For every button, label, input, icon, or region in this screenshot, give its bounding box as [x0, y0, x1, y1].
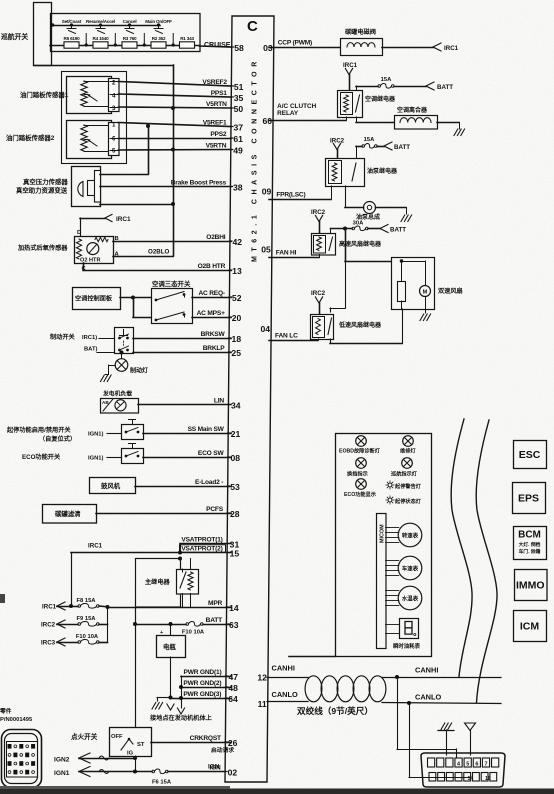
wire PPS2 pin6 to ECU 61 [119, 138, 232, 140]
DLC ground 1 (signal ground) [438, 723, 454, 755]
wire V5RTN pin3 to ECU 50 [119, 107, 232, 108]
svg-text:IGN1): IGN1) [88, 432, 104, 438]
generator load (发电机负载) [101, 390, 139, 414]
wire O2BLO to sensor return bus [113, 256, 173, 258]
svg-text:维修灯: 维修灯 [400, 447, 416, 455]
cruise switch connector box [34, 3, 52, 66]
svg-text:IRC2: IRC2 [330, 138, 345, 145]
svg-text:2: 2 [112, 80, 116, 87]
ECU pin 60 (right) [262, 116, 272, 126]
svg-text:7: 7 [485, 761, 488, 767]
svg-text:13: 13 [232, 266, 242, 276]
node PWR GND(3) / ECU pin 64 (left) [183, 691, 238, 704]
node ECO SW / ECU pin 08 (left) [198, 450, 240, 463]
wire CANHI continuation [382, 677, 501, 679]
wire pin60 to A/C relay coil [269, 120, 346, 122]
svg-text:FPR(LSC): FPR(LSC) [276, 192, 305, 199]
accelerator pedal sensor 1 (油门踏板传感器1) [20, 77, 119, 114]
wire A/C panel to switches [120, 297, 151, 299]
svg-text:IRC3: IRC3 [41, 640, 56, 647]
cruise switch Main On/OFF [145, 19, 172, 34]
DLC diagnostic connector [421, 753, 505, 787]
wire PWR GND(1) to ECU 47 [181, 676, 231, 678]
junction on cruise ladder [143, 43, 146, 46]
svg-text:11: 11 [258, 699, 267, 709]
svg-text:空调继电器: 空调继电器 [365, 95, 396, 103]
wire FAN LC pin04 to relay coil [269, 340, 318, 342]
svg-text:52: 52 [232, 293, 242, 303]
svg-text:IRC1: IRC1 [444, 45, 459, 52]
svg-text:Brake Boost Press: Brake Boost Press [171, 179, 227, 186]
svg-text:R1 343: R1 343 [180, 36, 194, 41]
svg-text:R2 362: R2 362 [152, 36, 166, 41]
svg-text:IGN2: IGN2 [54, 757, 70, 764]
connector C (MT62.1 chassis connector) body [225, 16, 274, 782]
svg-text:车门. 除霜: 车门. 除霜 [519, 548, 541, 555]
node PPS1 / ECU pin 35 (left) [211, 90, 244, 103]
svg-text:BATT: BATT [437, 84, 453, 91]
pedal sensors enclosure [62, 72, 127, 164]
scan page bottom edge [0, 789, 554, 794]
dual speed fan (双速风扇) [392, 258, 463, 321]
svg-text:34: 34 [231, 401, 241, 411]
wire CANLO continuation [382, 703, 501, 704]
svg-text:碳罐滤清: 碳罐滤清 [55, 509, 81, 518]
gauge 转速表 [386, 523, 422, 547]
svg-text:FAN HI: FAN HI [276, 250, 297, 257]
node V5RTN / ECU pin 50 (left) [206, 101, 243, 114]
svg-text:20: 20 [232, 313, 242, 323]
brake switch (制动开关) [50, 328, 134, 354]
svg-text:IRC1: IRC1 [116, 216, 131, 223]
svg-text:OFF: OFF [111, 734, 123, 740]
svg-text:BCM: BCM [518, 530, 541, 541]
svg-text:61: 61 [233, 134, 243, 144]
cruise switch assembly outer box [51, 14, 201, 52]
svg-text:Cancel: Cancel [123, 19, 137, 24]
svg-text:08: 08 [230, 453, 240, 463]
resistor R2 (362 ohm) [151, 36, 166, 48]
wire CRUISE to pin 58 [200, 46, 232, 47]
harness curve 1 [451, 419, 472, 677]
svg-text:D: D [77, 230, 81, 236]
svg-text:BRKSW: BRKSW [201, 331, 226, 338]
svg-text:15A: 15A [381, 77, 392, 83]
fuel pump relay (油泵继电器) [326, 159, 399, 187]
brake lamp (制动灯) [101, 351, 149, 382]
wire vacuum sensor supply to V5REF1 [100, 174, 148, 176]
svg-text:接地点在发动机机体上: 接地点在发动机机体上 [150, 714, 213, 722]
svg-text:BATT: BATT [206, 617, 222, 624]
svg-text:ICM: ICM [520, 621, 540, 633]
svg-text:35: 35 [234, 93, 244, 103]
svg-text:VSATPROT(1): VSATPROT(1) [181, 536, 222, 543]
wire battery feed bus [135, 607, 137, 624]
svg-text:PCFS: PCFS [206, 506, 224, 513]
svg-text:O2BHI: O2BHI [206, 234, 226, 241]
cruise switch top bus wire [52, 25, 160, 27]
svg-text:ESC: ESC [519, 449, 541, 461]
svg-text:MT62.1 CHASIS CONNECTOR: MT62.1 CHASIS CONNECTOR [252, 57, 259, 262]
svg-text:4: 4 [112, 93, 116, 100]
fuel pump assembly (油泵总成) [345, 186, 412, 222]
junction on cruise ladder [172, 43, 175, 46]
A/C relay (空调继电器) [338, 91, 397, 118]
wire ECO SW to ECU 08 [143, 457, 231, 459]
node CRKRQST / ECU pin 26 (left) [190, 735, 238, 748]
svg-text:车速表: 车速表 [402, 564, 419, 572]
svg-text:EPS: EPS [518, 493, 539, 505]
svg-text:加热式后氧传感器: 加热式后氧传感器 [17, 244, 68, 252]
svg-text:IMMO: IMMO [516, 580, 545, 592]
wire IGN1 + fuse F6 15A to ECU 02 [54, 764, 225, 786]
resistor R5 (6190 ohm) [64, 36, 81, 48]
svg-text:PWR GND(3): PWR GND(3) [183, 691, 221, 698]
ECO function switch (ECO功能开关) [22, 444, 144, 464]
cluster bottom edge extension [289, 656, 335, 658]
svg-text:25: 25 [231, 348, 241, 358]
node PCFS / ECU pin 28 (left) [206, 506, 240, 519]
node MPR / ECU pin 14 (left) [208, 600, 239, 613]
wire LIN to ECU 34 [138, 404, 231, 406]
svg-text:5: 5 [466, 761, 469, 767]
start/stop enable switch (起停功能启用/禁用开关) [6, 420, 144, 444]
svg-text:IG: IG [127, 751, 134, 757]
svg-text:ECO功能显示: ECO功能显示 [344, 490, 376, 498]
main relay (主继电器) [136, 559, 199, 608]
wire BATT row to ECU 63 + fuse F10 10A [135, 624, 186, 626]
wire vacuum sensor return [100, 204, 173, 206]
svg-text:VSATPROT(2): VSATPROT(2) [181, 545, 222, 552]
harness connector face view + part number [0, 707, 42, 788]
wire fan power feed [345, 229, 347, 262]
svg-text:CCP (PWM): CCP (PWM) [278, 40, 312, 47]
junction on cruise ladder [85, 43, 88, 46]
svg-text:空调三态开关: 空调三态开关 [152, 279, 191, 288]
svg-text:SS Main SW: SS Main SW [188, 426, 225, 433]
svg-text:起停状态灯: 起停状态灯 [394, 497, 422, 505]
node V5REF1 / ECU pin 37 (left) [203, 119, 244, 132]
svg-text:油泵继电器: 油泵继电器 [367, 167, 398, 175]
resistor R3 (760 ohm) [122, 36, 137, 48]
wire O2BHI to ECU 42 [113, 241, 231, 243]
ground cascade [150, 676, 213, 722]
node PWR GND(1) / ECU pin 47 (left) [184, 669, 239, 682]
svg-text:12: 12 [257, 673, 267, 683]
svg-text:油门踏板传感器2: 油门踏板传感器2 [6, 133, 55, 142]
svg-text:CANLO: CANLO [415, 693, 442, 702]
svg-text:IGN: IGN [208, 764, 220, 771]
IRC2 down feed (low fan) [311, 290, 326, 314]
svg-text:低速风扇继电器: 低速风扇继电器 [338, 321, 382, 329]
svg-text:IRC2: IRC2 [41, 622, 56, 629]
wire CANLO drop to DLC [409, 703, 411, 778]
cluster warning lamp 换挡指示 [347, 458, 368, 478]
svg-text:空调控制面板: 空调控制面板 [75, 295, 113, 303]
cruise switch Resume/Accel [86, 19, 115, 34]
wire BRKLP to ECU 25 [133, 352, 231, 354]
wire MPR row to ECU 14 [108, 607, 232, 609]
accelerator pedal sensor 2 (油门踏板传感器2) [6, 121, 119, 159]
svg-text:R5 6190: R5 6190 [64, 36, 81, 41]
harness curve 2 [476, 420, 497, 703]
svg-text:MICOM: MICOM [380, 524, 386, 543]
svg-text:起停功能启用/禁用开关: 起停功能启用/禁用开关 [6, 426, 71, 434]
instantaneous fuel consumption display 瞬时油耗表 [386, 619, 421, 651]
svg-text:4: 4 [457, 761, 460, 767]
svg-text:大灯. 倒档: 大灯. 倒档 [519, 541, 541, 548]
IRC2 down feed (fuel pump) [330, 138, 345, 159]
cruise switch Set/Coast [62, 19, 82, 34]
svg-text:F10 10A: F10 10A [182, 630, 205, 636]
scan left edge smudge [0, 594, 5, 603]
IRC1 feed arrow (O2 heater) [77, 214, 131, 236]
wire CCP (PWM) to canister solenoid [269, 47, 340, 49]
svg-text:O2B HTR: O2B HTR [198, 263, 226, 270]
svg-text:IRC1: IRC1 [88, 543, 103, 550]
fuse 15A to BATT (fuel pump) [356, 137, 410, 158]
wire VSATPROT(1) row to ECU 31 [180, 543, 231, 545]
svg-text:BATT: BATT [394, 144, 410, 151]
A/C control panel (空调控制面板) [73, 288, 121, 310]
node LIN / ECU pin 34 (left) [214, 397, 241, 410]
node VSATPROT(1) / ECU pin 31 (left) [181, 536, 239, 549]
fuse F9 15A / IRC2 [41, 607, 108, 629]
svg-text:真空压力传感器: 真空压力传感器 [23, 177, 68, 186]
svg-text:起停警告灯: 起停警告灯 [394, 482, 422, 490]
instrument cluster box [336, 434, 432, 657]
MICOM bar [377, 514, 387, 649]
wire PWR GND(2) to ECU 48 [181, 687, 231, 689]
svg-text:MPR: MPR [208, 600, 222, 607]
svg-text:CRUISE: CRUISE [204, 42, 231, 49]
node O2B HTR / ECU pin 13 (left) [198, 263, 242, 276]
node O2BHI / ECU pin 42 (left) [206, 234, 242, 247]
ECU pin 09 (right) [262, 187, 306, 199]
svg-text:04: 04 [260, 324, 270, 334]
wire Brake Boost Press to ECU 38 [100, 186, 231, 188]
svg-text:Set/Coast: Set/Coast [62, 19, 82, 24]
vacuum pressure sensor (真空压力传感器) [16, 167, 101, 207]
svg-text:37: 37 [233, 123, 243, 133]
node Brake Boost Press / ECU pin 38 (left) [171, 179, 243, 192]
svg-text:空调离合器: 空调离合器 [397, 106, 428, 114]
module EPS [513, 483, 546, 514]
svg-text:V5RTN: V5RTN [206, 142, 227, 149]
svg-text:LIN: LIN [214, 397, 224, 404]
svg-text:碳罐电磁阀: 碳罐电磁阀 [345, 28, 376, 36]
svg-text:51: 51 [234, 82, 244, 92]
svg-text:49: 49 [233, 146, 243, 156]
svg-text:IRC2: IRC2 [311, 209, 326, 216]
node CRUISE / ECU pin 58 (left) [231, 43, 244, 53]
svg-text:IRC2: IRC2 [311, 290, 326, 297]
high speed fan relay (高速风扇继电器) [312, 234, 383, 256]
svg-text:BATT: BATT [390, 227, 406, 234]
twisted pair CANLO conductor [267, 701, 308, 703]
wire PWR GND(3) to ECU 64 [171, 698, 232, 700]
svg-text:O2BLO: O2BLO [148, 249, 170, 256]
svg-text:零件: 零件 [0, 707, 12, 715]
svg-text:水温表: 水温表 [402, 594, 419, 602]
svg-text:05: 05 [261, 245, 271, 255]
svg-text:6: 6 [475, 761, 478, 767]
svg-text:58: 58 [234, 43, 244, 53]
node SS Main SW / ECU pin 21 (left) [188, 426, 241, 439]
wire IGN2 [54, 753, 137, 772]
svg-text:CANLO: CANLO [272, 690, 299, 699]
svg-text:CRKRQST: CRKRQST [190, 735, 221, 742]
node BRKLP / ECU pin 25 (left) [203, 345, 241, 358]
module ESC [514, 441, 547, 469]
svg-text:IRC1: IRC1 [42, 604, 57, 611]
cluster warning lamp ECO功能显示 [344, 479, 376, 498]
ECU pin 05 (right) [261, 245, 296, 257]
svg-text:ECO功能开关: ECO功能开关 [22, 453, 61, 461]
wire CRKRQST to ECU 26 + label 启动请求 [151, 742, 231, 744]
svg-text:主继电器: 主继电器 [145, 578, 171, 586]
wire O2B HTR to ECU 13 [83, 263, 85, 270]
svg-text:IGN1: IGN1 [54, 770, 70, 777]
start-stop status lamp 起停状态灯 [386, 496, 422, 505]
node IGN / ECU pin 02 (left) [209, 764, 237, 777]
svg-text:巡航指示灯: 巡航指示灯 [391, 470, 418, 478]
gauge 车速表 [386, 556, 422, 580]
svg-text:R3 760: R3 760 [123, 36, 137, 41]
wire FPR(LSC) pin09 to relay coil [269, 199, 331, 201]
ECU pin 04 (right) [260, 324, 298, 340]
cluster warning lamp 巡航指示灯 [391, 458, 418, 478]
junction on cruise ladder [114, 43, 117, 46]
svg-text:F6 15A: F6 15A [152, 780, 172, 786]
IRC1 down feed [343, 62, 358, 90]
svg-text:EOBD故障诊断灯: EOBD故障诊断灯 [339, 447, 381, 455]
svg-text:30A: 30A [353, 221, 364, 227]
node BATT / ECU pin 63 (left) [206, 617, 239, 630]
svg-text:F8 15A: F8 15A [76, 598, 96, 604]
svg-text:真空助力资源变送: 真空助力资源变送 [16, 186, 68, 195]
wire PCFS to ECU 28 [96, 513, 231, 515]
svg-text:巡航开关: 巡航开关 [1, 32, 28, 41]
battery (电瓶) [157, 624, 186, 698]
svg-text:（自复位式）: （自复位式） [39, 435, 76, 443]
svg-text:BRKLP: BRKLP [203, 345, 226, 352]
wire BRKSW to ECU 18 [133, 338, 231, 340]
svg-text:双绞线（9节/英尺）: 双绞线（9节/英尺） [297, 705, 373, 716]
svg-text:发电机负载: 发电机负载 [102, 390, 132, 398]
module ICM [514, 611, 547, 642]
svg-text:C: C [247, 18, 258, 35]
wire SS Main SW to ECU 21 [143, 433, 231, 435]
svg-text:42: 42 [232, 237, 242, 247]
svg-text:02: 02 [228, 768, 238, 778]
wire E-Load2- to ECU 53 [135, 486, 231, 488]
wire sensor return bus [173, 65, 175, 256]
svg-text:A/C CLUTCH: A/C CLUTCH [277, 103, 316, 110]
A/C clutch (空调离合器) [356, 106, 465, 136]
node VSREF2 / ECU pin 51 (left) [202, 79, 243, 92]
svg-text:转速表: 转速表 [402, 531, 419, 539]
wire PPS1 pin4 to ECU 35 [119, 94, 232, 97]
cruise switch Cancel [123, 19, 137, 34]
svg-text:AC REQ-: AC REQ- [198, 290, 224, 297]
fuse 15A to BATT (A/C) [356, 77, 453, 91]
wire VSATPROT(2) row to ECU 15 [180, 552, 231, 554]
svg-text:点火开关: 点火开关 [71, 732, 98, 741]
svg-text:P/N0001495: P/N0001495 [0, 717, 33, 723]
svg-text:瞬时油耗表: 瞬时油耗表 [393, 642, 421, 650]
node BRKSW / ECU pin 18 (left) [201, 331, 242, 344]
node PWR GND(2) / ECU pin 48 (left) [183, 680, 238, 693]
svg-text:50: 50 [234, 104, 244, 114]
svg-text:换挡指示: 换挡指示 [347, 470, 368, 478]
cruise resistor ladder output wire [50, 45, 200, 47]
IRC2 down feed (high fan) [311, 209, 326, 233]
svg-text:F10 10A: F10 10A [76, 634, 99, 640]
svg-text:CANHI: CANHI [415, 666, 438, 675]
svg-text:启动请求: 启动请求 [211, 746, 234, 754]
gauge 水温表 [386, 586, 422, 610]
resistor R4 (1540 ohm) [93, 36, 110, 48]
svg-text:38: 38 [233, 183, 243, 193]
fuse F10 10A / IRC3 [41, 624, 108, 647]
ECU pin 12 (right) [257, 673, 267, 683]
svg-text:09: 09 [262, 187, 272, 197]
svg-text:IRC1): IRC1) [82, 335, 97, 341]
svg-text:3: 3 [112, 105, 116, 112]
svg-text:IGN1): IGN1) [88, 456, 104, 462]
label box VSATPROT(2) [180, 545, 226, 552]
wire AC REQ- to ECU 52 [192, 297, 231, 299]
svg-text:15: 15 [230, 549, 240, 559]
svg-text:16: 16 [485, 776, 491, 782]
canister box (碳罐滤清) [43, 505, 97, 524]
node AC REQ- / ECU pin 52 (left) [198, 290, 241, 303]
wire VSREF2 pin2 to ECU 51 [119, 82, 232, 87]
svg-text:RELAY: RELAY [277, 110, 299, 117]
node V5RTN / ECU pin 49 (left) [206, 142, 243, 155]
wire to IRC1 arrow [382, 47, 433, 49]
svg-text:PWR GND(1): PWR GND(1) [184, 669, 222, 676]
heated rear O2 sensor (加热式后氧传感器) [17, 236, 120, 272]
svg-text:ST: ST [137, 742, 145, 748]
ignition switch (点火开关) [71, 728, 152, 757]
node VSATPROT(2) / ECU pin 15 (left) [181, 545, 239, 558]
svg-text:M: M [423, 290, 428, 296]
twisted pair CANHI conductor [267, 677, 308, 679]
module IMMO [515, 570, 548, 601]
node E-Load2 - / ECU pin 53 (left) [195, 479, 240, 492]
node AC MPS+ / ECU pin 20 (left) [197, 310, 242, 323]
low speed fan relay (低速风扇继电器) [311, 315, 383, 340]
cluster warning lamp 维修灯 [400, 436, 416, 455]
DLC ground 2 (chassis ground) [465, 723, 476, 755]
svg-text:PWR GND(2): PWR GND(2) [183, 680, 221, 687]
svg-text:18: 18 [232, 334, 242, 344]
svg-text:E-Load2 -: E-Load2 - [195, 479, 223, 486]
svg-text:制动开关: 制动开关 [50, 333, 76, 341]
svg-text:双速风扇: 双速风扇 [437, 287, 463, 295]
start-stop warning lamp 起停警告灯 [386, 481, 422, 490]
module BCM [514, 527, 547, 560]
wire FAN HI pin05 to relay coil [269, 257, 319, 259]
svg-text:14: 14 [468, 776, 474, 782]
svg-text:电瓶: 电瓶 [163, 642, 176, 651]
svg-text:CANHI: CANHI [272, 664, 295, 673]
svg-text:F9 15A: F9 15A [76, 616, 96, 622]
svg-text:21: 21 [231, 429, 241, 439]
svg-text:BAT): BAT) [84, 347, 97, 353]
